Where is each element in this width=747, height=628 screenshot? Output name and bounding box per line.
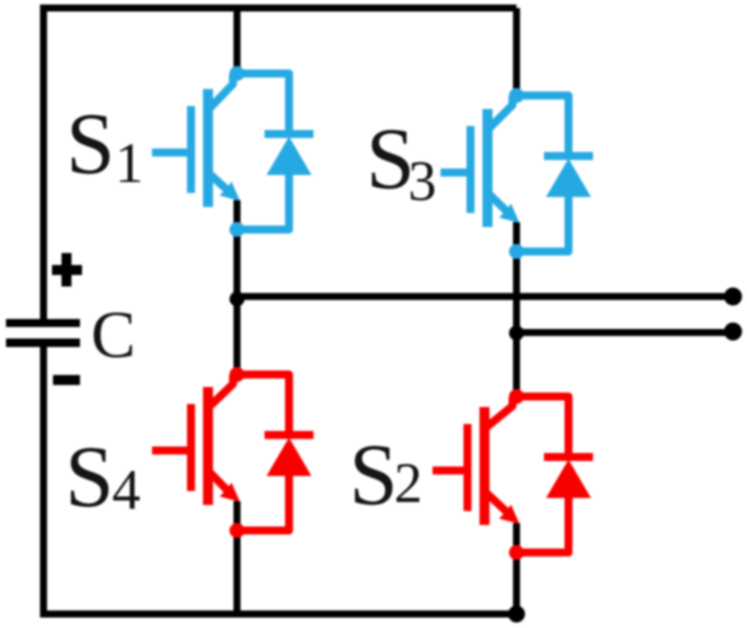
S4 emitter arrowhead [220,483,241,503]
node: S4 emitter junction dot [230,523,245,538]
S4 emitter stroke [209,471,230,492]
wire: S2 collector node to diode cathode branch [517,397,569,458]
diode of S2: cathode bar [544,453,593,461]
wire: output line A (left leg midpoint to right terminal) [237,293,733,300]
svg-text:S: S [66,96,115,193]
wire: S1 collector node to diode cathode branch [237,74,289,135]
svg-text:4: 4 [112,459,141,522]
node: S1 collector junction dot [230,66,245,81]
wire: diode anode to S1 emitter node [237,175,289,230]
node: junction of output B with right leg [509,326,524,341]
S4 gate lead [152,447,191,455]
node: S4 collector junction dot [230,367,245,382]
label S1 [66,96,144,195]
S1 emitter arrowhead [220,182,241,202]
wire: output line B (right leg midpoint to right terminal) [517,329,734,336]
svg-text:S: S [349,427,398,524]
node: bottom-right junction (right leg to bottom bus) [508,606,525,623]
S1 gate lead [152,149,191,157]
S2 body bar [480,407,490,525]
svg-text:2: 2 [394,452,423,515]
S2 gate bar [464,424,472,511]
node: junction of output A with left leg [230,292,245,307]
label C [91,298,136,372]
wire: right leg upper (top bus to S3 collector) [513,8,520,93]
S4 gate bar [187,404,195,491]
polarity minus sign [53,375,80,385]
wire: left leg upper (top bus to S1 collector) [234,8,241,72]
diode of S1: cathode bar [265,130,314,138]
wire: right leg lower (S2 emitter to bottom bus) [513,523,520,614]
diode of S3: anode triangle [546,159,591,198]
node: S2 collector junction dot [509,389,524,404]
svg-text:1: 1 [115,132,144,195]
diode of S3: cathode bar [544,152,593,160]
S1 body bar [203,89,213,207]
wire: S3 collector node to diode cathode branch [517,96,569,157]
wire: diode anode to S2 emitter node [517,498,569,553]
IGBT S1 with antiparallel diode [152,66,314,237]
S2 gate lead [433,467,468,475]
diode of S2: anode triangle [546,460,591,499]
S4 body bar [203,387,213,505]
wire: diode anode to S4 emitter node [237,476,289,531]
node: S1 emitter junction dot [230,222,245,237]
label S2 [349,427,423,524]
wire: diode anode to S3 emitter node [517,197,569,252]
diode of S4: cathode bar [265,431,314,439]
svg-text:3: 3 [408,150,437,213]
node: S2 emitter junction dot [509,545,524,560]
S3 emitter arrowhead [499,204,520,224]
S3 body bar [483,109,493,227]
wire: left leg middle (S1 emitter to S4 collector) [234,200,241,374]
S1 gate bar [187,106,195,193]
S4 collector stroke [209,375,233,407]
node: S3 collector junction dot [509,88,524,103]
node: output terminal B [724,323,742,341]
S3 gate bar [467,126,475,213]
S2 emitter arrowhead [499,505,520,525]
IGBT S2 with antiparallel diode [433,389,594,560]
svg-text:C: C [91,298,136,372]
wire: left rail upper [40,5,47,321]
wire: S4 collector node to diode cathode branch [237,375,289,436]
node: output terminal A [724,288,742,306]
S3 gate lead [441,169,471,177]
label S4 [65,429,141,526]
wire: left leg lower (S4 emitter to bottom bus) [234,501,241,614]
wire: bottom DC bus [40,611,517,618]
wire: top DC bus [41,5,517,12]
wire: right leg middle (S3 emitter to S2 collector) [513,222,520,396]
diode of S1: anode triangle [267,137,312,176]
node: S3 emitter junction dot [509,244,524,259]
S3 collector stroke [489,96,513,129]
svg-text:S: S [65,429,114,526]
S2 collector stroke [486,397,513,428]
polarity plus sign [52,253,82,287]
S3 emitter stroke [488,193,509,213]
IGBT S4 with antiparallel diode [152,367,314,538]
wire: left rail lower [40,346,47,615]
label S3 [366,111,437,213]
IGBT S3 with antiparallel diode [441,88,594,259]
capacitor C [6,319,80,347]
S1 emitter stroke [209,173,230,192]
S1 collector stroke [209,74,233,109]
diode of S4: anode triangle [267,438,312,477]
S2 emitter stroke [486,492,509,514]
